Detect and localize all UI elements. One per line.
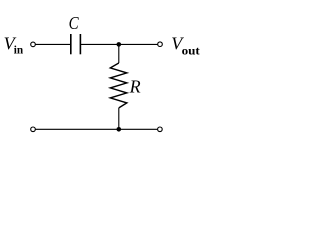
terminal circle bottom-left (31, 127, 36, 132)
node junction bottom (117, 127, 122, 132)
capacitor C (71, 34, 81, 54)
wire capacitor to Vout terminal (81, 43, 158, 45)
terminal circle top-right (158, 42, 163, 47)
wire resistor bottom lead (118, 108, 120, 129)
svg-text:out: out (182, 45, 200, 57)
label Vin (4, 33, 24, 56)
terminal circle top-left (31, 42, 36, 47)
svg-text:R: R (129, 76, 141, 96)
wire resistor top lead (118, 44, 120, 63)
terminal circle bottom-right (158, 127, 163, 132)
resistor R (110, 63, 127, 108)
wire bottom rail (35, 128, 157, 130)
node junction top (117, 42, 122, 47)
svg-text:C: C (69, 13, 80, 33)
wire Vin terminal to capacitor (35, 43, 70, 45)
svg-text:in: in (14, 44, 24, 56)
label Vout (171, 34, 200, 58)
